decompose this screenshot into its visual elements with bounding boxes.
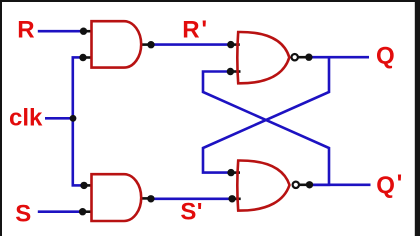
junction dot U3 input 2: [227, 68, 234, 75]
and-gate U1 pin stub input 1: [84, 30, 93, 33]
and-gate U1 pin stub input 2: [83, 56, 92, 59]
wire Q' output: [310, 184, 371, 187]
nor-gate U4 body: [237, 160, 289, 210]
svg-text:Q: Q: [376, 43, 395, 70]
and-gate U2 pin stub input 1: [84, 184, 92, 187]
junction dot clk at U2 input 1: [80, 182, 87, 189]
wire S input: [38, 210, 83, 213]
junction dot S at U2 input 2: [79, 208, 86, 215]
wire Q feedback to U4 input 1: [203, 57, 329, 172]
junction dot U2 output: [147, 195, 154, 202]
junction dot clk node: [70, 115, 77, 122]
svg-text:Q': Q': [376, 170, 402, 199]
wire Q output: [309, 56, 369, 59]
junction dot U1 output: [147, 41, 154, 48]
junction dot U3 output: [305, 54, 312, 61]
junction dot R at U1 input 1: [80, 28, 87, 35]
nor-gate U3 bubble: [292, 54, 298, 60]
wire clk to U2 input 1: [72, 184, 85, 187]
nor-gate U3 pin stub output: [298, 56, 309, 59]
nor-gate U4 bubble: [293, 182, 299, 188]
junction dot U4 input 2: [228, 195, 235, 202]
wire clk to U1 input 2: [72, 56, 84, 59]
junction dot U3 input 1: [227, 41, 234, 48]
and-gate U1 pin stub output: [141, 43, 152, 46]
and-gate U2: [92, 174, 142, 221]
nor-gate U4 pin stub input 1: [231, 171, 240, 174]
junction dot U4 input 1: [227, 169, 234, 176]
nor-gate U3 pin stub input 1: [231, 43, 240, 46]
and-gate U2 pin stub output: [141, 197, 151, 200]
wire clk vertical: [72, 57, 75, 185]
svg-text:S: S: [15, 201, 31, 228]
nor-gate U4 pin stub output: [299, 184, 310, 187]
wire clk input: [45, 117, 73, 120]
svg-text:R: R: [17, 17, 34, 44]
junction dot clk at U1 input 2: [79, 54, 86, 61]
and-gate U2 pin stub input 2: [83, 210, 92, 213]
wire R input: [38, 30, 84, 33]
and-gate U1: [92, 21, 142, 67]
svg-text:clk: clk: [9, 105, 43, 132]
nor-gate U4 pin stub input 2: [232, 198, 241, 201]
svg-text:S': S': [180, 198, 202, 225]
wire R' net: [151, 43, 231, 46]
svg-text:R': R': [182, 16, 207, 44]
nor-gate U3 pin stub input 2: [230, 70, 240, 73]
junction dot U4 output: [306, 181, 313, 188]
wire Q' feedback to U3 input 2: [203, 72, 329, 185]
wire S' net: [151, 198, 232, 201]
nor-gate U3 body: [237, 32, 289, 83]
